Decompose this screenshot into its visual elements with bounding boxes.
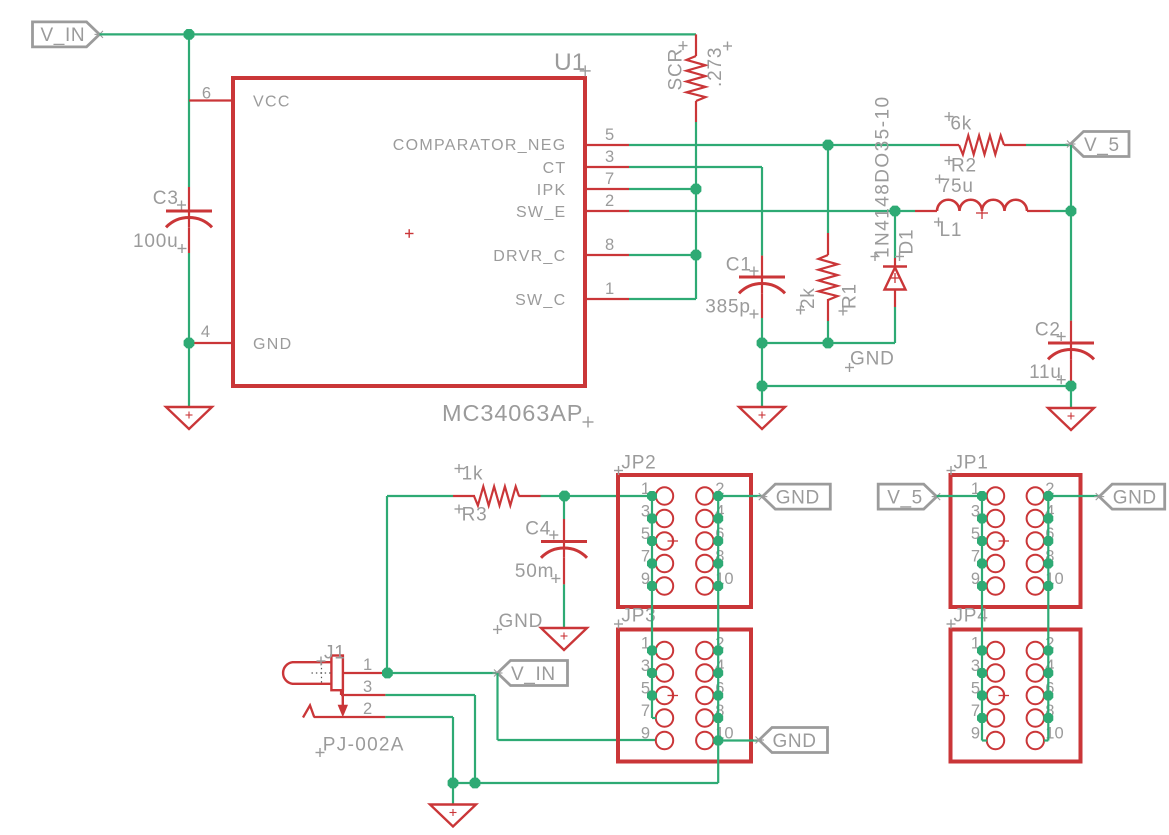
- pin name COMPARATOR_NEG: [393, 137, 567, 154]
- wire J1 pin3 down: [474, 695, 476, 783]
- U1 origin cross: [405, 229, 414, 238]
- wire J1 pin2 right: [385, 716, 453, 718]
- JP3 pin 6 pad: [696, 687, 713, 704]
- junction JP1 odd bus y=673: [977, 668, 987, 678]
- JP4 pin 4 pad: [1027, 664, 1044, 681]
- resistor SCR: [687, 56, 706, 101]
- svg-text:GND: GND: [253, 336, 292, 353]
- JP3 reference label: [614, 606, 657, 629]
- junction odd bus y=650.5: [647, 646, 657, 656]
- JP4 pin 9 pad: [987, 732, 1004, 749]
- SCR reference label: [666, 41, 688, 90]
- wire JP2-JP3 even-pin bus: [717, 496, 719, 783]
- JP2 pin number 10: [715, 570, 733, 588]
- JP4 pin number 3: [971, 657, 980, 675]
- resistor SCR lead top: [695, 34, 697, 56]
- svg-text:6k: 6k: [950, 114, 972, 135]
- JP2 pin number 4: [715, 503, 724, 521]
- junction C1/GND rail: [757, 338, 768, 349]
- wire JP1 pin2 to GND flag: [1048, 495, 1099, 497]
- junction JP1 even bus y=586: [1043, 581, 1053, 591]
- svg-text:V_5: V_5: [887, 487, 923, 508]
- JP4 pin number 10: [1045, 725, 1063, 743]
- junction C3/pin4: [184, 338, 195, 349]
- JP3 pin number 7: [641, 702, 650, 720]
- svg-text:SW_C: SW_C: [515, 292, 566, 309]
- junction JP1 even bus y=695.5: [1043, 691, 1053, 701]
- D1 reference label: [895, 229, 918, 261]
- svg-text:VCC: VCC: [253, 93, 291, 110]
- C4 reference label: [525, 518, 558, 539]
- JP2 pin number 3: [641, 503, 650, 521]
- JP4 pin number 6: [1045, 680, 1054, 698]
- JP4 pin 3 pad: [987, 664, 1004, 681]
- wire SCR to SW_C: [695, 122, 697, 299]
- pin name SW_C: [515, 292, 566, 309]
- junction JP1 even bus y=518.5: [1043, 514, 1053, 524]
- JP1 pin number 10: [1045, 570, 1063, 588]
- net flag V_5 (JP1): [878, 484, 942, 509]
- junction JP1 odd bus y=563.5: [977, 559, 987, 569]
- capacitor C4: [541, 542, 587, 558]
- JP3 pin number 3: [641, 657, 650, 675]
- junction even bus y=695.5: [713, 691, 723, 701]
- svg-text:4: 4: [201, 323, 210, 341]
- wire JP3 pin10 to GND flag: [718, 739, 759, 741]
- U1 pin 1 stub: [587, 298, 629, 300]
- svg-text:9: 9: [971, 725, 980, 743]
- svg-text:8: 8: [605, 236, 614, 254]
- JP2 pin 7 pad: [656, 555, 673, 572]
- JP3 pin number 2: [715, 635, 724, 653]
- junction odd bus y=586: [647, 581, 657, 591]
- JP1 pin number 8: [1045, 548, 1054, 566]
- svg-text:C2: C2: [1035, 320, 1061, 341]
- capacitor C1 lead bottom: [761, 293, 763, 318]
- capacitor C2: [1048, 343, 1094, 359]
- JP1 pin 7 pad: [987, 555, 1004, 572]
- JP3 pin 8 pad: [696, 709, 713, 726]
- JP2 pin number 9: [641, 570, 650, 588]
- JP4 pin number 8: [1045, 702, 1054, 720]
- R3 reference label: [455, 504, 488, 525]
- JP3 pin number 6: [715, 680, 724, 698]
- JP1 pin number 5: [971, 525, 980, 543]
- JP4 origin cross: [999, 691, 1010, 701]
- JP1 pin 2 pad: [1027, 487, 1044, 504]
- resistor R1 lead top: [827, 233, 829, 255]
- JP4 pin number 1: [971, 635, 980, 653]
- svg-text:3: 3: [363, 678, 372, 696]
- svg-text:100u: 100u: [133, 231, 178, 252]
- R3 value label 1k: [455, 464, 484, 485]
- svg-text:9: 9: [641, 725, 650, 743]
- capacitor C2 lead top: [1070, 321, 1072, 343]
- net flag GND (JP2): [757, 484, 830, 509]
- net flag V_5 (top right): [1066, 132, 1130, 157]
- JP1 reference label: [947, 453, 989, 476]
- junction JP1 even bus y=673: [1043, 668, 1053, 678]
- connector J1 contact: [331, 656, 343, 691]
- J1 pin 1 stub: [342, 672, 385, 674]
- junction JP1 odd bus y=586: [977, 581, 987, 591]
- JP3 pin 5 pad: [656, 687, 673, 704]
- capacitor C1: [739, 277, 785, 293]
- capacitor C3 lead bottom: [188, 228, 190, 254]
- junction L1/V_5 net: [1066, 206, 1077, 217]
- wire R1 to GND rail: [827, 321, 829, 343]
- JP4 pin 1 pad: [987, 642, 1004, 659]
- wire C4 top: [563, 496, 565, 519]
- junction odd bus y=695.5: [647, 691, 657, 701]
- svg-text:JP1: JP1: [954, 453, 989, 474]
- svg-text:R1: R1: [840, 283, 861, 309]
- JP4 pin 10 pad: [1027, 732, 1044, 749]
- J1 switch arrow: [338, 690, 348, 717]
- net flag GND (JP3): [754, 728, 828, 753]
- pin number 2: [605, 192, 614, 210]
- junction JP1 odd bus y=718: [977, 713, 987, 723]
- U1 pin 5 stub: [587, 144, 629, 146]
- ground symbol bottom: [430, 805, 476, 827]
- ground symbol below C3: [166, 407, 212, 429]
- JP2 pin 5 pad: [656, 532, 673, 549]
- JP1 pin number 2: [1045, 480, 1054, 498]
- wire R2 to V_5: [1026, 144, 1071, 146]
- wire R3 to JP2 pin1: [541, 495, 656, 497]
- JP2 pin 10 pad: [696, 577, 713, 594]
- pin number 4: [201, 323, 210, 341]
- inductor L1 lead left: [915, 210, 937, 212]
- svg-text:GND: GND: [499, 611, 544, 632]
- wire pin2 to D1 junction: [629, 210, 895, 212]
- JP1 origin cross: [999, 536, 1010, 546]
- capacitor C4 lead bottom: [563, 558, 565, 585]
- wire JP1-JP4 even-pin bus: [1044, 496, 1048, 741]
- junction pin2 net/ground: [448, 778, 459, 789]
- JP3 pin number 4: [715, 657, 724, 675]
- JP3 pin number 10: [715, 725, 733, 743]
- wire C1 junction down: [761, 343, 763, 407]
- resistor R3: [474, 487, 519, 506]
- JP3 origin cross: [668, 691, 679, 701]
- JP4 pin number 2: [1045, 635, 1054, 653]
- wire L1 to V_5 vertical: [1050, 210, 1071, 212]
- pin name CT: [543, 160, 567, 177]
- junction pin3 net/bottom wire: [470, 778, 481, 789]
- svg-text:7: 7: [605, 170, 614, 188]
- JP4 pin 2 pad: [1027, 642, 1044, 659]
- C4 value label 50m: [515, 561, 561, 583]
- JP2 pin number 7: [641, 548, 650, 566]
- capacitor C3: [166, 211, 212, 227]
- U1 pin 2 stub: [587, 210, 629, 212]
- capacitor C4 lead top: [563, 519, 565, 542]
- net flag V_IN (bottom): [493, 661, 568, 686]
- L1 value label 75u: [935, 175, 974, 198]
- svg-text:PJ-002A: PJ-002A: [323, 734, 405, 755]
- wire D1 top: [894, 211, 896, 258]
- J1 pin 2 spring: [303, 705, 314, 717]
- svg-text:50m: 50m: [515, 561, 554, 582]
- J1 pin number 1: [363, 656, 372, 674]
- wire left vertical R3 to J1: [386, 496, 388, 673]
- junction JP1 odd bus y=541: [977, 536, 987, 546]
- svg-text:C3: C3: [153, 188, 179, 209]
- JP4 pin 6 pad: [1027, 687, 1044, 704]
- resistor R1: [819, 255, 838, 300]
- JP3 pin number 5: [641, 680, 650, 698]
- svg-text:385p: 385p: [705, 297, 750, 318]
- ground symbol mid: [739, 407, 785, 429]
- junction even bus y=518.5: [713, 514, 723, 524]
- junction odd bus y=541: [647, 536, 657, 546]
- pin name DRVR_C: [493, 248, 566, 265]
- U1 pin 8 stub: [587, 254, 629, 256]
- JP1 pin number 6: [1045, 525, 1054, 543]
- C1 value label 385p: [705, 297, 758, 319]
- JP2 pin 8 pad: [696, 555, 713, 572]
- resistor R3 lead right: [519, 495, 541, 497]
- resistor SCR lead bottom: [695, 101, 697, 122]
- C2 value label 11u: [1029, 362, 1066, 384]
- pin header JP4: [951, 630, 1081, 762]
- U1 pin 6 VCC stub: [189, 99, 231, 101]
- svg-text:V_5: V_5: [1084, 135, 1120, 156]
- inductor L1: [937, 200, 1027, 219]
- JP4 pin number 9: [971, 725, 980, 743]
- JP3 pin 1 pad: [656, 642, 673, 659]
- wire JP2 pin2 to GND flag: [718, 495, 762, 497]
- svg-text:GND: GND: [776, 487, 820, 508]
- svg-text:U1: U1: [554, 49, 585, 76]
- svg-text:V_IN: V_IN: [41, 25, 86, 46]
- svg-text:1: 1: [363, 656, 372, 674]
- wire junction to ground: [188, 343, 190, 407]
- wire pin1 to SCR net: [629, 298, 696, 300]
- JP1 pin number 7: [971, 548, 980, 566]
- JP4 pin number 5: [971, 680, 980, 698]
- JP2 pin 4 pad: [696, 510, 713, 527]
- junction V_IN/C3: [184, 29, 195, 40]
- svg-text:1k: 1k: [462, 464, 484, 485]
- J1 reference label: [317, 643, 346, 666]
- JP2 pin 3 pad: [656, 510, 673, 527]
- wire junction to L1: [895, 210, 915, 212]
- wire C1 to GND rail: [761, 318, 763, 343]
- pin header JP2: [618, 475, 751, 607]
- junction JP1 even bus y=718: [1043, 713, 1053, 723]
- svg-text:IPK: IPK: [537, 182, 567, 199]
- wire J1 pin2 down: [452, 717, 454, 783]
- svg-text:V_IN: V_IN: [511, 664, 556, 685]
- GND label below C4: [493, 611, 543, 634]
- wire pin8 to SCR net: [629, 254, 696, 256]
- pin header JP3: [618, 630, 751, 762]
- junction even bus y=673: [713, 668, 723, 678]
- junction SCR/IPK: [691, 184, 702, 195]
- JP2 pin number 5: [641, 525, 650, 543]
- resistor R1 lead top wire: [827, 145, 829, 233]
- junction even bus y=563.5: [713, 559, 723, 569]
- JP3 pin 4 pad: [696, 664, 713, 681]
- junction JP1 even bus y=650.5: [1043, 646, 1053, 656]
- J1 pin number 2: [363, 700, 372, 718]
- junction even bus y=650.5: [713, 646, 723, 656]
- wire C2 to bottom rail: [1070, 381, 1072, 386]
- junction JP1 even bus y=496: [1043, 491, 1053, 501]
- junction even bus y=541: [713, 536, 723, 546]
- junction even bus y=496: [713, 491, 723, 501]
- junction even bus y=740.5: [713, 736, 723, 746]
- wire J1 pin1 to V_IN flag: [385, 672, 497, 674]
- junction JP1 odd bus y=650.5: [977, 646, 987, 656]
- JP2 pin 2 pad: [696, 487, 713, 504]
- JP4 pin number 4: [1045, 657, 1054, 675]
- pin number 3: [605, 148, 614, 166]
- junction R1/GND rail: [823, 338, 834, 349]
- svg-text:1N4148DO35-10: 1N4148DO35-10: [873, 95, 894, 258]
- U1 value label MC34063AP: [442, 400, 594, 428]
- op-amp U1 MC34063AP body: [233, 78, 585, 386]
- svg-text:.273: .273: [705, 47, 726, 87]
- wire V_IN down to C3: [188, 34, 190, 187]
- JP4 pin 8 pad: [1027, 709, 1044, 726]
- junction odd bus y=496: [647, 491, 657, 501]
- GND label near rail: [845, 349, 895, 373]
- junction pin2/D1/L1: [890, 206, 901, 217]
- svg-text:GND: GND: [850, 349, 895, 370]
- svg-text:GND: GND: [1113, 487, 1157, 508]
- JP2 pin 9 pad: [656, 577, 673, 594]
- svg-text:2: 2: [363, 700, 372, 718]
- svg-text:GND: GND: [773, 731, 817, 752]
- capacitor C2 lead bottom: [1070, 359, 1072, 381]
- JP3 pin 7 pad: [656, 709, 673, 726]
- wire C3 to GND junction: [188, 253, 190, 343]
- wire C4 to ground: [563, 584, 565, 628]
- JP4 pin number 7: [971, 702, 980, 720]
- junction JP1 odd bus y=518.5: [977, 514, 987, 524]
- JP3 pin 3 pad: [656, 664, 673, 681]
- resistor R2 lead right: [1004, 144, 1026, 146]
- J1 pin number 3: [363, 678, 372, 696]
- wire R3 left: [387, 495, 453, 497]
- pin number 8: [605, 236, 614, 254]
- capacitor C1 lead top: [761, 256, 763, 277]
- capacitor C3 lead top: [188, 187, 190, 211]
- junction odd bus y=673: [647, 668, 657, 678]
- svg-text:R3: R3: [462, 504, 488, 525]
- JP1 pin 9 pad: [987, 577, 1004, 594]
- resistor R2: [959, 136, 1004, 155]
- svg-text:2: 2: [605, 192, 614, 210]
- SCR value label .273: [705, 42, 732, 88]
- L1 reference label: [934, 218, 962, 242]
- wire V_IN to SCR top: [100, 33, 697, 35]
- junction JP1 odd bus y=695.5: [977, 691, 987, 701]
- svg-text:C4: C4: [525, 518, 551, 539]
- pin number 7: [605, 170, 614, 188]
- J1 value label PJ-002A: [316, 734, 405, 757]
- inductor L1 lead right: [1027, 210, 1050, 212]
- JP4 reference label: [947, 606, 989, 629]
- J1 origin crosshair: [312, 664, 333, 685]
- svg-text:L1: L1: [940, 220, 963, 241]
- JP1 pin 4 pad: [1027, 510, 1044, 527]
- pin name IPK: [537, 182, 567, 199]
- wire JP1-JP4 odd-pin bus: [982, 496, 987, 741]
- junction SCR/DRVR_C: [691, 250, 702, 261]
- wire bottom GND run: [453, 782, 718, 784]
- net flag GND (JP1): [1094, 484, 1165, 509]
- JP3 pin 2 pad: [696, 642, 713, 659]
- diode D1 lead bottom: [894, 290, 896, 308]
- wire V_IN down: [496, 673, 498, 740]
- JP2 reference label: [614, 453, 657, 476]
- wire V_5 vertical: [1070, 145, 1072, 321]
- JP3 pin 10 pad: [696, 732, 713, 749]
- svg-text:SW_E: SW_E: [516, 204, 567, 221]
- junction JP1 odd bus y=496: [977, 491, 987, 501]
- svg-text:7: 7: [641, 702, 650, 720]
- pin header JP1: [951, 475, 1081, 607]
- JP1 pin 1 pad: [987, 487, 1004, 504]
- connector J1 barrel: [283, 662, 331, 684]
- wire J1 pin3 right: [385, 694, 475, 696]
- wire to ground bottom: [452, 783, 454, 805]
- net flag V_IN (top left): [33, 22, 105, 47]
- wire V_IN to JP3 pin9: [498, 739, 656, 741]
- JP2 pin number 8: [715, 548, 724, 566]
- svg-text:COMPARATOR_NEG: COMPARATOR_NEG: [393, 137, 567, 154]
- ground symbol below C4: [541, 628, 587, 650]
- pin name VCC: [253, 93, 291, 110]
- svg-text:JP2: JP2: [621, 453, 656, 474]
- JP2 pin number 1: [641, 480, 650, 498]
- JP1 pin 10 pad: [1027, 577, 1044, 594]
- JP3 pin 9 pad: [656, 732, 673, 749]
- wire C2 junction to ground: [1070, 386, 1072, 408]
- C3 value label 100u: [133, 231, 187, 253]
- junction odd bus y=518.5: [647, 514, 657, 524]
- JP3 pin number 8: [715, 702, 724, 720]
- JP1 pin number 3: [971, 503, 980, 521]
- R1 value label 2k: [796, 287, 819, 314]
- C1 reference label: [726, 255, 759, 276]
- svg-text:J1: J1: [324, 643, 346, 664]
- svg-text:CT: CT: [543, 160, 567, 177]
- junction GND rail/bottom wire: [757, 381, 768, 392]
- wire D1 to GND rail: [894, 307, 896, 343]
- U1 pin 4 GND stub: [189, 342, 231, 344]
- J1 pin 3 stub: [341, 694, 385, 696]
- JP1 pin number 1: [971, 480, 980, 498]
- C3 reference label: [153, 188, 186, 210]
- JP4 pin 5 pad: [987, 687, 1004, 704]
- U1 pin 7 stub: [587, 188, 629, 190]
- JP2 pin 1 pad: [656, 487, 673, 504]
- wire V_5 flag to JP1 pin1: [937, 495, 982, 497]
- D1 value label 1N4148DO35-10: [871, 95, 894, 261]
- JP1 pin number 4: [1045, 503, 1054, 521]
- svg-text:3: 3: [605, 148, 614, 166]
- svg-text:DRVR_C: DRVR_C: [493, 248, 566, 265]
- svg-text:C1: C1: [726, 255, 752, 276]
- JP1 pin 6 pad: [1027, 532, 1044, 549]
- wire GND rail C1-R1-D1: [762, 342, 895, 344]
- wire pin5 to R2: [629, 144, 940, 146]
